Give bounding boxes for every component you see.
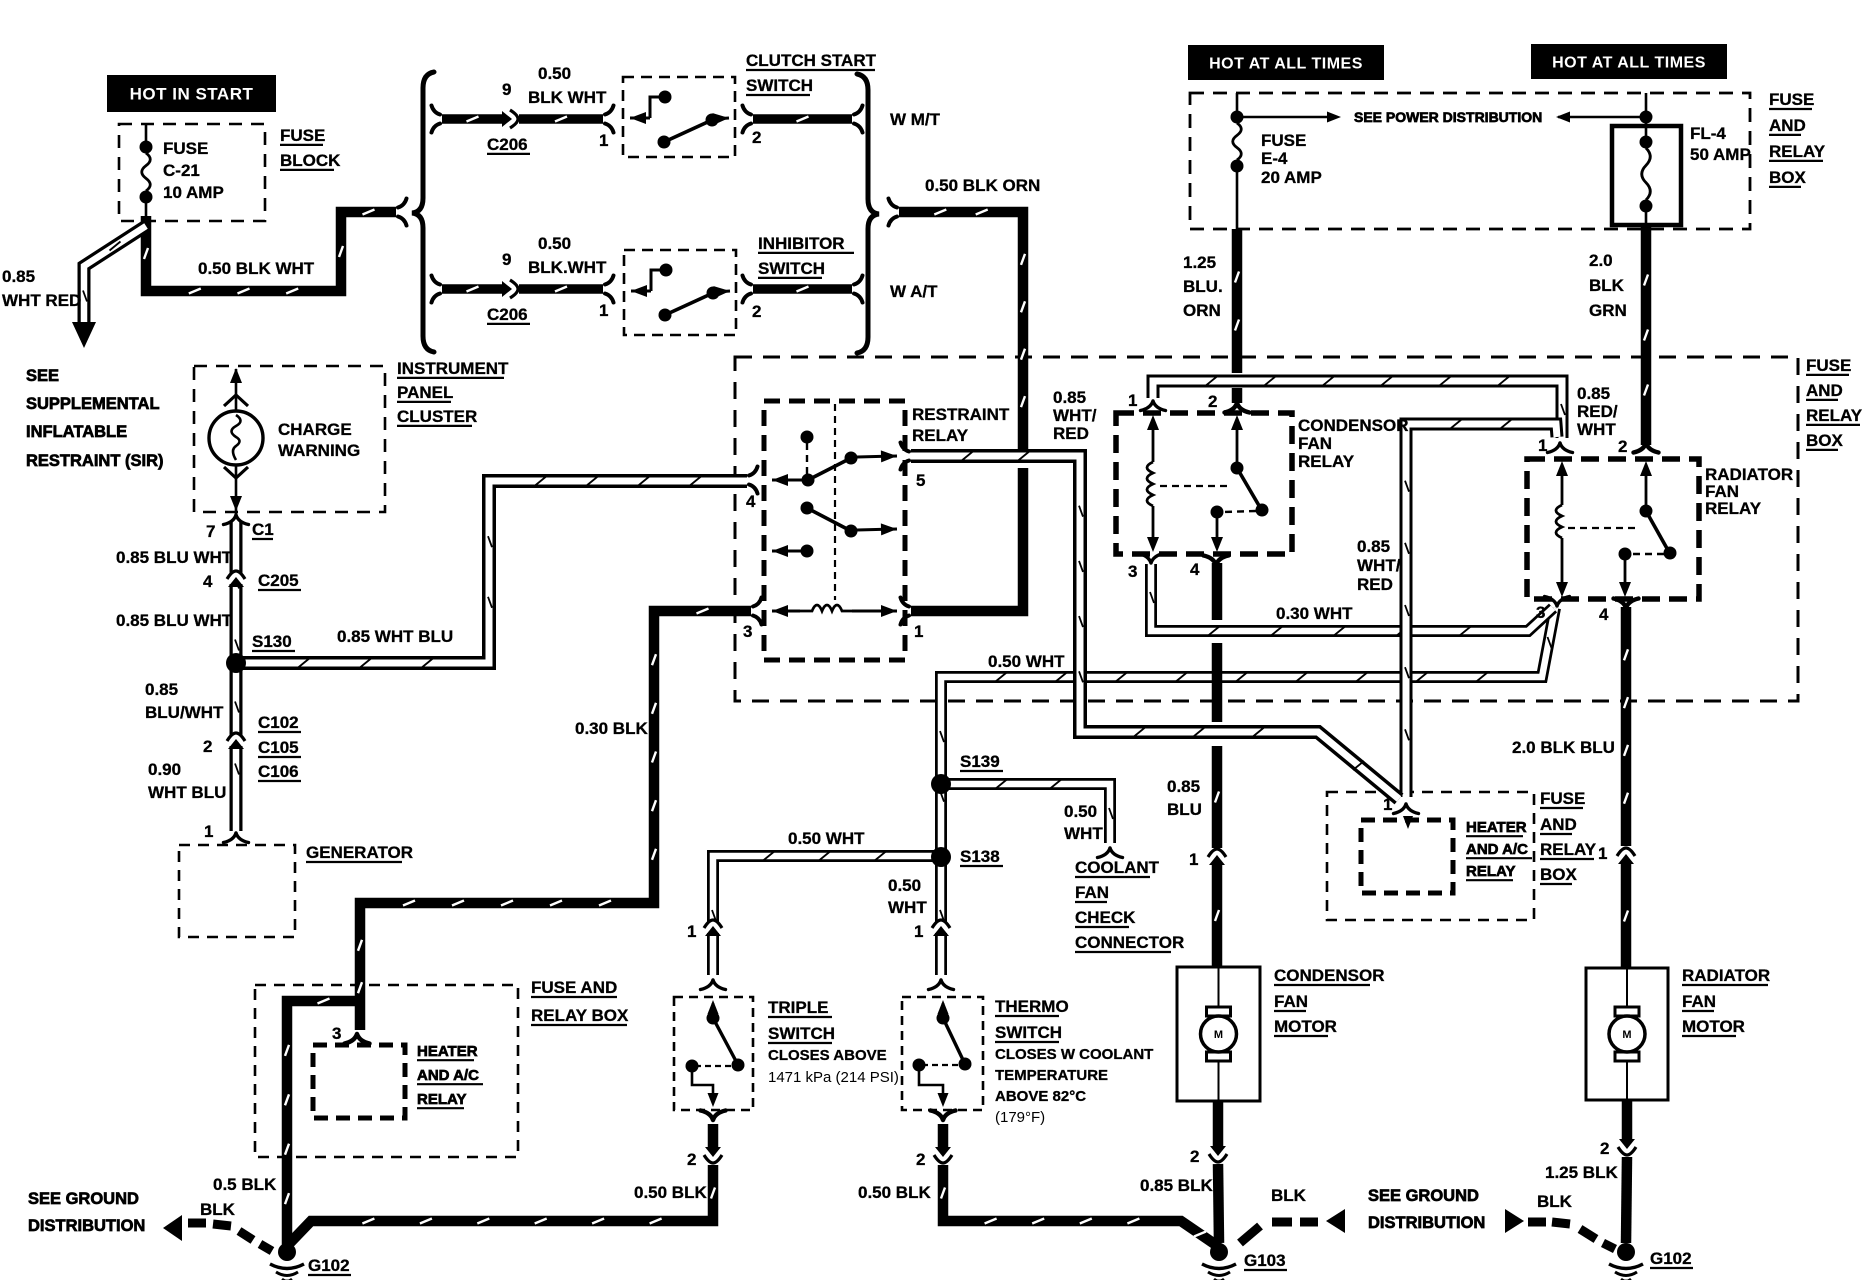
svg-text:FUSE AND: FUSE AND bbox=[531, 978, 617, 997]
svg-text:GRN: GRN bbox=[1589, 301, 1627, 320]
label HOT AT ALL TIMES right bbox=[1531, 44, 1727, 79]
svg-text:RESTRAINT: RESTRAINT bbox=[912, 405, 1010, 424]
svg-text:0.50: 0.50 bbox=[538, 234, 571, 253]
svg-text:0.85: 0.85 bbox=[1577, 384, 1610, 403]
wire 2.0 BLK BLU radiator relay pin 4 to motor bbox=[1624, 607, 1628, 846]
svg-text:RELAY: RELAY bbox=[1769, 142, 1826, 161]
svg-text:2: 2 bbox=[203, 737, 212, 756]
generator box bbox=[179, 845, 295, 937]
svg-text:RED/: RED/ bbox=[1577, 402, 1618, 421]
wire S139 to coolant fan check connector bbox=[947, 780, 1113, 844]
svg-text:SEE GROUND: SEE GROUND bbox=[1368, 1187, 1479, 1205]
wire 0.85 BLU condensor relay pin 4 to motor bbox=[1212, 563, 1223, 620]
svg-text:SWITCH: SWITCH bbox=[746, 76, 813, 95]
svg-text:0.85: 0.85 bbox=[145, 680, 178, 699]
svg-text:CLOSES ABOVE: CLOSES ABOVE bbox=[768, 1047, 887, 1064]
svg-text:SUPPLEMENTAL: SUPPLEMENTAL bbox=[26, 395, 160, 413]
svg-text:1.25 BLK: 1.25 BLK bbox=[1545, 1163, 1618, 1182]
svg-text:0.30 WHT: 0.30 WHT bbox=[1276, 604, 1353, 623]
svg-text:20 AMP: 20 AMP bbox=[1261, 168, 1322, 187]
fuse and relay box main bbox=[735, 357, 1798, 701]
svg-text:RESTRAINT (SIR): RESTRAINT (SIR) bbox=[26, 452, 164, 470]
svg-text:RELAY: RELAY bbox=[912, 426, 969, 445]
svg-text:GENERATOR: GENERATOR bbox=[306, 843, 413, 862]
wire 2.0 BLK GRN bbox=[1644, 225, 1648, 445]
svg-text:CONNECTOR: CONNECTOR bbox=[1075, 933, 1184, 952]
svg-text:1.25: 1.25 bbox=[1183, 253, 1216, 272]
svg-text:0.50 WHT: 0.50 WHT bbox=[988, 652, 1065, 671]
radiator fan relay box bbox=[1527, 459, 1699, 599]
svg-text:HEATER: HEATER bbox=[417, 1043, 478, 1060]
svg-text:COOLANT: COOLANT bbox=[1075, 858, 1160, 877]
svg-text:BLU.: BLU. bbox=[1183, 277, 1223, 296]
svg-text:W A/T: W A/T bbox=[890, 282, 938, 301]
svg-text:50 AMP: 50 AMP bbox=[1690, 145, 1751, 164]
svg-text:FAN: FAN bbox=[1298, 434, 1332, 453]
svg-text:3: 3 bbox=[743, 622, 752, 641]
svg-text:M: M bbox=[1214, 1029, 1223, 1041]
svg-text:RADIATOR: RADIATOR bbox=[1682, 966, 1770, 985]
wire end connectors inhibitor branch bbox=[432, 276, 441, 303]
wire 0.50 BLK WHT to clutch start switch bbox=[442, 117, 503, 122]
svg-text:CLOSES W COOLANT: CLOSES W COOLANT bbox=[995, 1046, 1153, 1063]
wire 0.30 BLK restraint pin 3 to heater A/C relay and ground bbox=[358, 609, 751, 1031]
svg-text:S139: S139 bbox=[960, 752, 1000, 771]
svg-text:1: 1 bbox=[1189, 850, 1198, 869]
inline connector triple switch wire bbox=[704, 920, 722, 936]
svg-text:RED: RED bbox=[1357, 575, 1393, 594]
svg-text:FUSE: FUSE bbox=[1806, 356, 1851, 375]
wire relay box top link condensor pin 1 to radiator pin 1 bbox=[1153, 377, 1565, 439]
svg-text:TRIPLE: TRIPLE bbox=[768, 998, 828, 1017]
svg-text:FUSE: FUSE bbox=[280, 126, 325, 145]
svg-text:0.50: 0.50 bbox=[1064, 802, 1097, 821]
svg-text:SEE GROUND: SEE GROUND bbox=[28, 1190, 139, 1208]
wire 0.85 WHT/RED restraint pin 5 to heater A/C relay pin 1 bbox=[911, 452, 1399, 800]
svg-text:2: 2 bbox=[916, 1150, 925, 1169]
inhibitor switch internals bbox=[631, 290, 651, 293]
wire 0.85 RED/WHT to heater A/C relay pin 1 bbox=[1405, 420, 1557, 798]
thermo switch internals bbox=[938, 1000, 949, 1014]
svg-text:WHT: WHT bbox=[888, 898, 927, 917]
svg-text:TEMPERATURE: TEMPERATURE bbox=[995, 1067, 1108, 1084]
svg-text:0.30 BLK: 0.30 BLK bbox=[575, 719, 648, 738]
wire end connector after right brace bbox=[889, 199, 898, 226]
wire from clutch switch pin 2 bbox=[753, 117, 852, 122]
svg-text:1: 1 bbox=[687, 922, 696, 941]
svg-text:4: 4 bbox=[746, 492, 756, 511]
inhibitor switch box bbox=[624, 250, 736, 335]
svg-text:CONDENSOR: CONDENSOR bbox=[1274, 966, 1385, 985]
heater a/c relay left pin 3 connector bbox=[345, 1034, 370, 1044]
svg-text:HEATER: HEATER bbox=[1466, 819, 1527, 836]
svg-text:BLU: BLU bbox=[1167, 800, 1202, 819]
right brace bbox=[857, 74, 879, 353]
condensor fan relay coil bbox=[1152, 425, 1155, 462]
svg-text:PANEL: PANEL bbox=[397, 383, 453, 402]
radiator fan relay switch bbox=[1645, 471, 1648, 505]
svg-text:3: 3 bbox=[1128, 562, 1137, 581]
svg-text:WHT RED: WHT RED bbox=[2, 291, 81, 310]
svg-text:1471 kPa (214 PSI): 1471 kPa (214 PSI) bbox=[768, 1069, 899, 1086]
svg-text:BOX: BOX bbox=[1806, 431, 1844, 450]
wire 0.50 BLK WHT from fuse C-21 bbox=[144, 210, 396, 294]
left brace bbox=[412, 72, 434, 352]
triple switch top connector bbox=[701, 980, 726, 990]
connector C205 bbox=[227, 571, 245, 587]
connector C1 bbox=[224, 515, 249, 525]
wire 0.50 BLK ORN from brace to restraint relay pin 1 bbox=[899, 210, 1025, 450]
junction S138 bbox=[931, 847, 951, 867]
svg-text:HOT IN START: HOT IN START bbox=[130, 85, 254, 104]
svg-text:CLUTCH START: CLUTCH START bbox=[746, 51, 877, 70]
junction S139 bbox=[931, 774, 951, 794]
svg-text:10 AMP: 10 AMP bbox=[163, 183, 224, 202]
wire condensor motor to ground G103 bbox=[1213, 1101, 1224, 1146]
svg-text:3: 3 bbox=[1536, 603, 1545, 622]
svg-text:FAN: FAN bbox=[1075, 883, 1109, 902]
svg-text:SWITCH: SWITCH bbox=[995, 1023, 1062, 1042]
radiator fan relay coil bbox=[1561, 471, 1564, 505]
svg-text:INHIBITOR: INHIBITOR bbox=[758, 234, 845, 253]
svg-text:RELAY: RELAY bbox=[417, 1091, 466, 1108]
svg-text:3: 3 bbox=[332, 1024, 341, 1043]
triple switch pin 2 connectors bbox=[701, 1111, 726, 1121]
svg-text:CLUSTER: CLUSTER bbox=[397, 407, 477, 426]
svg-text:WHT: WHT bbox=[1577, 420, 1616, 439]
svg-text:4: 4 bbox=[1190, 560, 1200, 579]
svg-text:HOT AT ALL TIMES: HOT AT ALL TIMES bbox=[1552, 54, 1706, 71]
restraint relay internals bbox=[806, 443, 808, 474]
svg-text:INFLATABLE: INFLATABLE bbox=[26, 423, 127, 441]
svg-text:C105: C105 bbox=[258, 738, 299, 757]
svg-text:0.85: 0.85 bbox=[1053, 388, 1086, 407]
svg-text:RELAY: RELAY bbox=[1466, 863, 1515, 880]
heater a/c relay right pin 1 connector bbox=[1394, 804, 1419, 814]
fuse and relay box top right bbox=[1190, 93, 1750, 229]
svg-text:0.85: 0.85 bbox=[1167, 777, 1200, 796]
svg-text:SEE: SEE bbox=[26, 367, 59, 385]
svg-text:C206: C206 bbox=[487, 135, 528, 154]
svg-text:G102: G102 bbox=[1650, 1249, 1692, 1268]
svg-text:MOTOR: MOTOR bbox=[1682, 1017, 1745, 1036]
svg-text:WARNING: WARNING bbox=[278, 441, 360, 460]
svg-text:INSTRUMENT: INSTRUMENT bbox=[397, 359, 509, 378]
svg-text:0.85: 0.85 bbox=[1357, 537, 1390, 556]
restraint relay pin connectors bbox=[749, 467, 758, 494]
thermo switch box bbox=[902, 997, 983, 1110]
wire 0.85 WHT BLU from S130 to restraint relay pin 4 bbox=[242, 477, 747, 668]
svg-text:HOT AT ALL TIMES: HOT AT ALL TIMES bbox=[1209, 55, 1363, 72]
svg-text:1: 1 bbox=[599, 301, 608, 320]
wire 0.85 WHT RED to SIR note bbox=[83, 226, 146, 326]
svg-text:CHECK: CHECK bbox=[1075, 908, 1136, 927]
svg-text:0.50 BLK ORN: 0.50 BLK ORN bbox=[925, 176, 1040, 195]
svg-text:0.85 BLU WHT: 0.85 BLU WHT bbox=[116, 611, 233, 630]
svg-text:S138: S138 bbox=[960, 847, 1000, 866]
label HOT AT ALL TIMES left bbox=[1188, 45, 1384, 80]
svg-text:RELAY: RELAY bbox=[1298, 452, 1355, 471]
restraint relay box bbox=[764, 401, 905, 660]
junction S130 bbox=[226, 653, 246, 673]
svg-text:2: 2 bbox=[752, 302, 761, 321]
fuse and relay box bottom left bbox=[255, 985, 518, 1157]
condensor motor wire inline connector 1 bbox=[1208, 849, 1226, 865]
svg-text:0.50 WHT: 0.50 WHT bbox=[788, 829, 865, 848]
svg-text:FL-4: FL-4 bbox=[1690, 124, 1726, 143]
fuse C-21 element bbox=[145, 124, 148, 141]
wire 0.50 WHT S138 to triple switch bbox=[712, 852, 936, 976]
svg-text:FUSE: FUSE bbox=[1540, 789, 1585, 808]
svg-text:1: 1 bbox=[1538, 436, 1547, 455]
svg-text:1: 1 bbox=[914, 622, 923, 641]
svg-text:E-4: E-4 bbox=[1261, 149, 1288, 168]
svg-text:2: 2 bbox=[1618, 437, 1627, 456]
svg-text:C205: C205 bbox=[258, 571, 299, 590]
svg-text:RELAY: RELAY bbox=[1540, 840, 1597, 859]
radiator fan motor bbox=[1586, 968, 1668, 1100]
svg-text:FUSE: FUSE bbox=[163, 139, 208, 158]
svg-text:FUSE: FUSE bbox=[1261, 131, 1306, 150]
svg-text:BLU/WHT: BLU/WHT bbox=[145, 703, 224, 722]
svg-text:BLK WHT: BLK WHT bbox=[528, 88, 607, 107]
svg-text:7: 7 bbox=[206, 522, 215, 541]
condensor motor pin 2 connector bbox=[1209, 1146, 1227, 1162]
svg-text:DISTRIBUTION: DISTRIBUTION bbox=[28, 1217, 145, 1235]
ground G102 left bbox=[278, 1243, 296, 1261]
svg-text:BLK: BLK bbox=[1271, 1186, 1307, 1205]
svg-text:BOX: BOX bbox=[1540, 865, 1578, 884]
svg-text:1: 1 bbox=[599, 131, 608, 150]
svg-text:C-21: C-21 bbox=[163, 161, 200, 180]
svg-text:0.85 BLU WHT: 0.85 BLU WHT bbox=[116, 548, 233, 567]
svg-text:2: 2 bbox=[1190, 1147, 1199, 1166]
svg-text:1: 1 bbox=[1598, 844, 1607, 863]
coolant fan check connector end bbox=[1098, 848, 1123, 858]
svg-text:0.50: 0.50 bbox=[888, 876, 921, 895]
inline connector thermo switch wire bbox=[932, 920, 950, 936]
svg-text:4: 4 bbox=[203, 572, 213, 591]
heater and a/c relay box right bbox=[1361, 820, 1453, 893]
svg-text:SWITCH: SWITCH bbox=[768, 1024, 835, 1043]
svg-text:0.85 WHT BLU: 0.85 WHT BLU bbox=[337, 627, 453, 646]
wire end connectors clutch branch bbox=[398, 199, 407, 226]
condensor fan motor bbox=[1177, 967, 1260, 1101]
restraint relay coil bbox=[772, 610, 800, 613]
svg-text:G102: G102 bbox=[308, 1256, 350, 1275]
svg-text:DISTRIBUTION: DISTRIBUTION bbox=[1368, 1214, 1485, 1232]
thermo switch pin 2 connectors bbox=[931, 1111, 956, 1121]
svg-text:1: 1 bbox=[1383, 795, 1392, 814]
svg-text:0.85: 0.85 bbox=[2, 267, 35, 286]
svg-text:2: 2 bbox=[687, 1150, 696, 1169]
svg-text:M: M bbox=[1622, 1029, 1631, 1041]
connector C102 C105 C106 bbox=[227, 733, 245, 749]
svg-text:AND: AND bbox=[1540, 815, 1577, 834]
svg-text:FAN: FAN bbox=[1274, 992, 1308, 1011]
svg-text:9: 9 bbox=[502, 250, 511, 269]
heater and a/c relay box left bbox=[313, 1045, 405, 1118]
condensor fan relay switch bbox=[1236, 425, 1239, 462]
wire from inhibitor switch pin 2 bbox=[753, 287, 852, 292]
svg-text:4: 4 bbox=[1599, 605, 1609, 624]
svg-text:RELAY: RELAY bbox=[1705, 499, 1762, 518]
fuse and relay box bottom right bbox=[1327, 792, 1534, 920]
svg-text:S130: S130 bbox=[252, 632, 292, 651]
svg-text:1: 1 bbox=[204, 822, 213, 841]
svg-text:ABOVE 82°C: ABOVE 82°C bbox=[995, 1088, 1086, 1105]
svg-text:2.0: 2.0 bbox=[1589, 251, 1613, 270]
svg-text:AND: AND bbox=[1769, 116, 1806, 135]
radiator motor pin 2 connector bbox=[1618, 1139, 1636, 1155]
svg-text:ORN: ORN bbox=[1183, 301, 1221, 320]
svg-text:WHT/: WHT/ bbox=[1357, 556, 1401, 575]
svg-text:BLOCK: BLOCK bbox=[280, 151, 341, 170]
svg-text:W M/T: W M/T bbox=[890, 110, 941, 129]
triple switch internals bbox=[708, 1000, 719, 1014]
arrow to SEE SUPPLEMENTAL INFLATABLE RESTRAINT bbox=[72, 322, 96, 348]
fusible link FL-4 bbox=[1612, 126, 1681, 225]
svg-text:BLK: BLK bbox=[200, 1200, 236, 1219]
svg-text:WHT BLU: WHT BLU bbox=[148, 783, 226, 802]
wire 0.50 WHT radiator pin 3 to thermo switch bbox=[940, 608, 1555, 975]
svg-text:BLK: BLK bbox=[1537, 1192, 1573, 1211]
svg-text:C106: C106 bbox=[258, 762, 299, 781]
svg-text:(179°F): (179°F) bbox=[995, 1109, 1045, 1126]
wire 0.30 WHT condensor pin 3 to radiator pin 3 bbox=[1150, 564, 1553, 636]
SEE POWER DISTRIBUTION arrows bbox=[1237, 116, 1329, 119]
svg-text:0.50 BLK: 0.50 BLK bbox=[858, 1183, 931, 1202]
thermo switch top connector bbox=[929, 980, 954, 990]
ground G103 bbox=[1210, 1243, 1228, 1261]
svg-text:C102: C102 bbox=[258, 713, 299, 732]
svg-text:WHT: WHT bbox=[1064, 824, 1103, 843]
svg-text:FUSE: FUSE bbox=[1769, 90, 1814, 109]
svg-text:AND: AND bbox=[1806, 381, 1843, 400]
svg-text:BLK: BLK bbox=[1589, 276, 1625, 295]
svg-text:AND A/C: AND A/C bbox=[417, 1067, 479, 1084]
label HOT IN START bbox=[107, 75, 276, 112]
svg-text:MOTOR: MOTOR bbox=[1274, 1017, 1337, 1036]
svg-text:0.90: 0.90 bbox=[148, 760, 181, 779]
svg-text:2: 2 bbox=[752, 128, 761, 147]
instrument panel cluster box bbox=[194, 366, 385, 512]
clutch start switch box bbox=[623, 77, 735, 157]
see ground distribution arrow right bbox=[1505, 1209, 1524, 1233]
see ground distribution arrow left bbox=[163, 1215, 182, 1241]
svg-text:2: 2 bbox=[1208, 392, 1217, 411]
svg-text:0.50: 0.50 bbox=[538, 64, 571, 83]
svg-text:THERMO: THERMO bbox=[995, 997, 1069, 1016]
svg-text:0.5 BLK: 0.5 BLK bbox=[213, 1175, 277, 1194]
svg-text:CONDENSOR: CONDENSOR bbox=[1298, 416, 1409, 435]
svg-text:1: 1 bbox=[1128, 391, 1137, 410]
svg-text:G103: G103 bbox=[1244, 1251, 1286, 1270]
fuse E-4 element bbox=[1236, 93, 1239, 111]
svg-text:5: 5 bbox=[916, 471, 925, 490]
wire triple switch to ground G102 bbox=[708, 1124, 719, 1147]
svg-text:BOX: BOX bbox=[1769, 168, 1807, 187]
svg-text:0.50 BLK: 0.50 BLK bbox=[634, 1183, 707, 1202]
wire 1.25 BLU ORN bbox=[1235, 229, 1239, 373]
radiator relay pin connectors bbox=[1548, 443, 1573, 453]
svg-text:CHARGE: CHARGE bbox=[278, 420, 352, 439]
svg-text:RED: RED bbox=[1053, 424, 1089, 443]
svg-text:9: 9 bbox=[502, 80, 511, 99]
svg-text:RELAY BOX: RELAY BOX bbox=[531, 1006, 629, 1025]
see ground distribution arrow middle bbox=[1326, 1209, 1345, 1233]
wire radiator motor to ground G102 bbox=[1622, 1100, 1633, 1139]
triple switch box bbox=[674, 997, 753, 1110]
wire thermo switch to ground G103 bbox=[938, 1124, 949, 1147]
svg-text:SEE POWER DISTRIBUTION: SEE POWER DISTRIBUTION bbox=[1354, 109, 1542, 125]
wire 0.50 BLK WHT to inhibitor switch bbox=[442, 287, 503, 292]
radiator motor wire inline connector 1 bbox=[1617, 848, 1635, 864]
condensor fan relay box bbox=[1116, 413, 1292, 554]
svg-text:AND A/C: AND A/C bbox=[1466, 841, 1528, 858]
connector generator pin 1 bbox=[224, 833, 249, 843]
svg-text:0.50 BLK WHT: 0.50 BLK WHT bbox=[198, 259, 315, 278]
svg-text:RELAY: RELAY bbox=[1806, 406, 1863, 425]
svg-text:SWITCH: SWITCH bbox=[758, 259, 825, 278]
svg-text:WHT/: WHT/ bbox=[1053, 406, 1097, 425]
svg-text:FAN: FAN bbox=[1682, 992, 1716, 1011]
ground G102 right bbox=[1617, 1243, 1635, 1261]
fuse block dashed box bbox=[119, 124, 265, 221]
svg-text:C1: C1 bbox=[252, 520, 274, 539]
svg-text:1: 1 bbox=[914, 922, 923, 941]
svg-text:2: 2 bbox=[1600, 1139, 1609, 1158]
charge warning lamp bbox=[235, 369, 238, 412]
condensor relay pin connectors bbox=[1141, 401, 1166, 411]
svg-text:BLK.WHT: BLK.WHT bbox=[528, 258, 607, 277]
svg-text:2.0 BLK BLU: 2.0 BLK BLU bbox=[1512, 738, 1615, 757]
clutch start switch internals bbox=[630, 117, 650, 120]
svg-text:C206: C206 bbox=[487, 305, 528, 324]
wire charge warning through S130 to generator bbox=[235, 521, 239, 831]
svg-text:0.85 BLK: 0.85 BLK bbox=[1140, 1176, 1213, 1195]
